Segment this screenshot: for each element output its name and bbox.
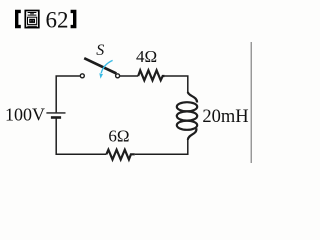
inductor loop 3: [177, 121, 197, 130]
switch right terminal: [116, 74, 120, 78]
wire switch right terminal to 4ohm resistor: [120, 75, 138, 77]
wire 6ohm resistor to bottom-left corner, up to battery: [56, 118, 106, 154]
wire 4ohm resistor to top-right corner, down to coil: [165, 76, 188, 93]
switch left terminal: [80, 74, 84, 78]
title bracket left 【: [15, 10, 21, 28]
battery long plate (+): [46, 112, 65, 114]
resistor 6ohm zigzag: [106, 150, 134, 160]
switch blade: [84, 58, 116, 73]
title bracket right 】: [71, 10, 77, 28]
inductor coil exit: [188, 128, 197, 140]
wires: [56, 76, 188, 154]
switch closing arrow (cyan): [101, 60, 112, 73]
wire top-left: corner to switch left terminal: [56, 76, 80, 112]
wire coil bottom to bottom-right corner, left to 6ohm resistor: [135, 140, 188, 155]
svg-text:100V: 100V: [5, 105, 45, 125]
svg-text:62: 62: [46, 8, 69, 33]
right border line: [250, 42, 252, 163]
inductor L coil entry: [188, 92, 197, 103]
svg-text:S: S: [96, 42, 104, 59]
title character 圖: [25, 11, 39, 28]
resistor 4ohm zigzag: [138, 70, 164, 80]
svg-text:4Ω: 4Ω: [136, 47, 157, 66]
battery short plate (-): [51, 116, 61, 119]
svg-text:20mH: 20mH: [202, 107, 248, 127]
inductor loop 1: [177, 102, 197, 111]
svg-text:6Ω: 6Ω: [108, 126, 129, 145]
inductor loop 2: [177, 111, 197, 120]
